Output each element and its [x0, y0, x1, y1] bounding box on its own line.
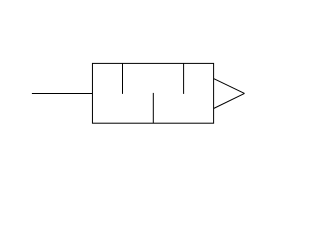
transducer body (rectangle) — [92, 63, 213, 123]
horn (open output triangle, lower edge) — [214, 93, 245, 108]
electrode finger 2 (from bottom) — [152, 93, 154, 123]
electrode finger 3 (from top) — [183, 63, 185, 94]
electrode finger 1 (from top) — [122, 63, 124, 94]
wire (input lead, left) — [32, 93, 93, 95]
horn (open output triangle, upper edge) — [214, 79, 245, 94]
